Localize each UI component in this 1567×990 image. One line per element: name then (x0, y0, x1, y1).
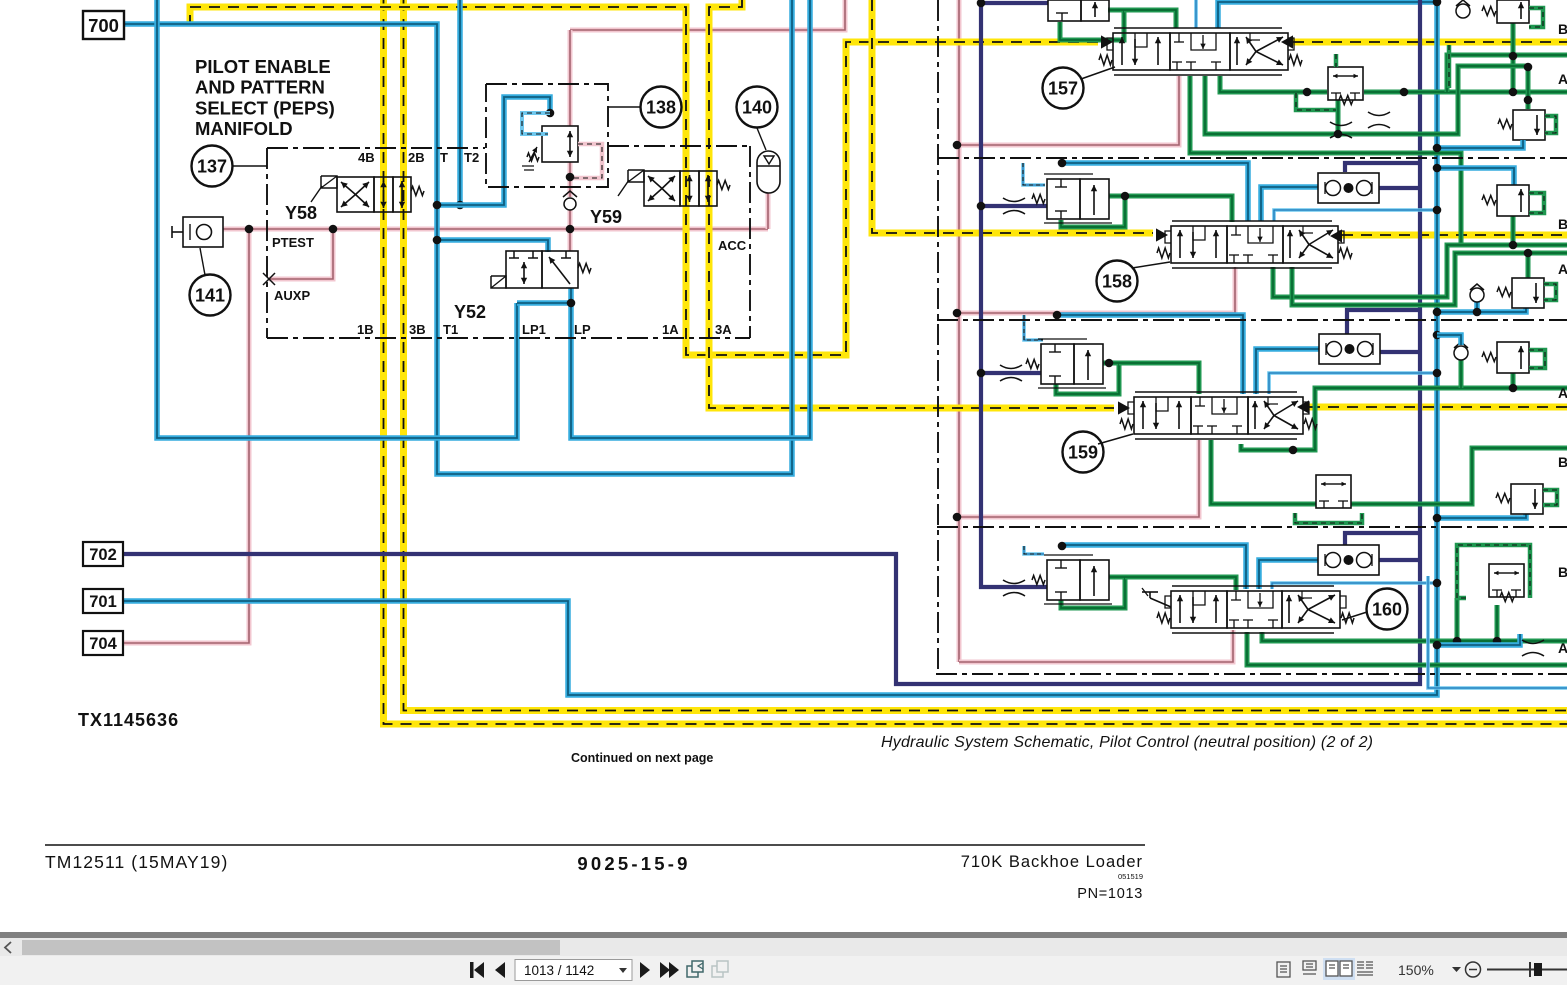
wire green 160 relief box link (1455, 598, 1460, 641)
relief valve 159 A (1511, 484, 1543, 514)
X mark AUXP (263, 273, 275, 285)
green dashed links 157 (1334, 54, 1339, 67)
wire cyan shuttle link 158 (1261, 187, 1318, 221)
svg-text:9025-15-9: 9025-15-9 (577, 853, 690, 874)
svg-text:T2: T2 (464, 150, 479, 165)
svg-text:3B: 3B (409, 322, 426, 337)
check valve circle 158 (1470, 288, 1484, 302)
wire rose right drain trunk (957, 0, 962, 662)
svg-text:138: 138 (646, 98, 676, 118)
wire navy branch 159 shuttle top (1347, 310, 1420, 334)
toolbar layout icon continuous (1303, 961, 1316, 974)
wire light blue 157 valve top stub (1194, 0, 1198, 28)
wire rose drain section 158 (959, 267, 1235, 313)
wire green 159 to valve top (1119, 363, 1199, 394)
border section 160 bottom (936, 673, 1567, 675)
wire green 159 reducing valve loop (1056, 363, 1119, 394)
label circle 158 (1097, 261, 1138, 302)
flow comp box 157 (1328, 67, 1363, 100)
svg-text:1A: 1A (662, 322, 679, 337)
wire yellow pilot 157 continues right (1293, 39, 1567, 46)
viewer toolbar background (0, 956, 1567, 985)
check valve 141 (183, 217, 223, 247)
wire navy pump feed trunk (981, 1, 1048, 5)
wire green 158 work line A (1292, 253, 1567, 305)
wire navy feed section 159 (981, 371, 1041, 375)
check valve circle 157 (1456, 4, 1470, 18)
svg-text:710K Backhoe Loader: 710K Backhoe Loader (961, 853, 1143, 871)
toolbar last page button (660, 962, 679, 978)
wire cyan 138 loop (437, 97, 550, 205)
svg-text:B: B (1558, 454, 1567, 470)
wire cyan shuttle feed 160 (1062, 545, 1246, 589)
wire green 158 A relief riser (1526, 253, 1531, 278)
junction dots green 160 (1493, 637, 1502, 646)
svg-text:AUXP: AUXP (274, 288, 310, 303)
svg-text:150%: 150% (1398, 962, 1434, 978)
wire navy branch 158 shuttle top (1345, 163, 1420, 172)
label circle 138 (641, 87, 682, 128)
viewer gray divider (0, 932, 1567, 938)
node 701 (83, 589, 123, 613)
flow comp box 160 (1489, 564, 1524, 597)
wire cyan shuttle feed 158 (1062, 163, 1248, 221)
svg-text:A: A (1558, 261, 1567, 277)
wire green 160 relief drop (1495, 605, 1500, 641)
solenoid valve Y59 (628, 170, 644, 182)
svg-text:701: 701 (89, 593, 117, 611)
relief valve 159 B (1497, 342, 1529, 373)
wire navy 702 line to valve block (124, 0, 1420, 684)
wire green 157 to valve top (1124, 10, 1176, 28)
svg-text:4B: 4B (358, 150, 375, 165)
wire PTEST rose main line (223, 227, 768, 232)
label circle 160 (1367, 589, 1408, 630)
wire cyan T1 left line (157, 0, 517, 438)
wire green 157 shuttle out (1364, 90, 1567, 95)
svg-text:A: A (1558, 640, 1567, 656)
svg-text:160: 160 (1372, 600, 1402, 620)
toolbar layout icon book (1357, 962, 1373, 975)
wire rose drain section 160 (959, 630, 1233, 662)
node 704 (83, 631, 123, 655)
wire cyan LP jog (517, 300, 571, 306)
junction dots rose right (953, 141, 962, 150)
wire rose accumulator drop (766, 193, 771, 229)
wire light blue 160 valve top (1272, 583, 1437, 589)
check valve circle 159 (1454, 346, 1468, 360)
wire navy branch 160 shuttle top (1345, 533, 1420, 545)
solenoid valve Y52 (506, 251, 542, 288)
wire light blue bottom exit (1428, 576, 1567, 688)
wire rose Y-138 drain upper (570, 0, 845, 30)
junction dots cyan left (433, 201, 442, 210)
wire green 158 reducing valve loop (1061, 196, 1125, 227)
label circle 141 (190, 275, 231, 316)
cyan 157 A return (1437, 140, 1523, 148)
toolbar layout icon single (1277, 962, 1290, 977)
junction dots navy (977, 0, 986, 7)
wire rose drain section 159 (959, 440, 1199, 517)
wire green 160 reducing valve loop (1061, 577, 1125, 608)
wire green 157 long drain (1190, 76, 1461, 245)
check valve under 138 (564, 198, 576, 210)
svg-text:B: B (1558, 564, 1567, 580)
junction dots green 157 (1303, 88, 1312, 97)
svg-text:Y59: Y59 (590, 207, 622, 227)
main valve 160 (1172, 585, 1334, 587)
label circle 159 (1063, 432, 1104, 473)
wire green 159 check drop (1459, 360, 1464, 388)
wire cyan A relief return 159 (1437, 512, 1526, 518)
reducing valve section 157 partial (1048, 0, 1081, 21)
viewer scrollbar thumb (22, 940, 560, 955)
svg-text:AND PATTERN: AND PATTERN (195, 77, 325, 98)
border 138 sub box (486, 84, 608, 187)
junction dots green 158 (1121, 192, 1130, 201)
wire cyan LP to top (571, 0, 810, 438)
toolbar layout icon facing selected (1323, 958, 1355, 980)
wire cyan A relief return 160 (1437, 634, 1520, 645)
wire yellow pilot to valve 157 (190, 7, 1098, 355)
label circle 140 (737, 87, 778, 128)
border section 157/158 (938, 157, 1567, 159)
wire green 157 reducing valve loop (1060, 10, 1124, 40)
svg-text:140: 140 (742, 98, 772, 118)
svg-text:SELECT (PEPS): SELECT (PEPS) (195, 97, 335, 118)
toolbar copy icon 2 (712, 961, 728, 977)
wire cyan B relief feed 158 (1437, 168, 1514, 185)
svg-text:MANIFOLD: MANIFOLD (195, 118, 293, 139)
svg-text:1013 / 1142: 1013 / 1142 (524, 963, 594, 978)
junction dots green 159 (1105, 359, 1114, 368)
wire yellow pilot to valve 159 (709, 0, 1114, 408)
wire green 157 shuttle feed (1220, 76, 1327, 92)
wire cyan LP stub from Y52 (568, 288, 574, 303)
flow comp box 159 (1316, 475, 1351, 508)
wire green 157 relief riser B (1511, 23, 1516, 92)
reducing valve section 160 (1047, 560, 1080, 600)
shuttle valve 160 (1318, 545, 1379, 575)
svg-text:Hydraulic System Schematic,: Hydraulic System Schematic, Pilot Contro… (881, 734, 1373, 751)
solenoid valve Y58 (321, 176, 337, 188)
wire rose to 704 label (124, 229, 249, 643)
svg-text:158: 158 (1102, 272, 1132, 292)
wire green 159 relief riser (1511, 373, 1516, 388)
relief valve 157 top (1497, 0, 1529, 23)
svg-text:702: 702 (89, 546, 117, 564)
svg-text:B: B (1558, 216, 1567, 232)
svg-text:1B: 1B (357, 322, 374, 337)
wire green 157 work line A (1205, 66, 1528, 134)
rose dashed pilot box 138 (572, 144, 602, 178)
border section 159/160 (937, 526, 1567, 528)
svg-text:PN=1013: PN=1013 (1077, 886, 1143, 902)
svg-text:LP: LP (574, 322, 591, 337)
viewer scrollbar left chevron (5, 942, 11, 953)
relief valve 157 A (1513, 110, 1545, 140)
wire cyan tank line from 700 (124, 0, 792, 474)
wire green 158 work line B (1273, 245, 1567, 297)
wire cyan 701 line trunk (124, 2, 1437, 695)
wire yellow pilot 158 continues right (1342, 232, 1567, 239)
main valve 159 (1135, 391, 1297, 393)
svg-text:Continued on next page: Continued on next page (571, 751, 713, 765)
wire cyan shuttle link 160 (1259, 560, 1318, 589)
svg-text:137: 137 (197, 157, 227, 177)
svg-text:A: A (1558, 385, 1567, 401)
toolbar next page button (640, 962, 650, 978)
wire rose Y-138 vertical (568, 30, 573, 126)
label circle 137 (192, 146, 233, 187)
wire yellow pilot to valve 158 (872, 0, 1153, 233)
light blue dashed box 138 (522, 113, 550, 134)
wire rose drain section 157 (959, 76, 1179, 145)
svg-text:ACC: ACC (718, 238, 747, 253)
svg-text:LP1: LP1 (522, 322, 546, 337)
svg-text:2B: 2B (408, 150, 425, 165)
wire cyan shuttle feed 159 (1057, 315, 1243, 394)
svg-text:PILOT ENABLE: PILOT ENABLE (195, 56, 331, 77)
shuttle valve 158 (1318, 173, 1379, 203)
junction dots PTEST (245, 225, 254, 234)
toolbar first page button (470, 962, 484, 978)
toolbar copy icon 1 (687, 961, 703, 977)
wire light blue 158 valve top (1274, 210, 1437, 221)
toolbar prev page button (495, 962, 505, 978)
wire yellow pilot 159 continues right (1309, 404, 1567, 411)
footer rule (45, 844, 1145, 846)
wire light blue 159 reducing loop (1024, 315, 1043, 340)
wire cyan shuttle link 159 (1256, 349, 1319, 394)
svg-text:B: B (1558, 21, 1567, 37)
wire light blue 159 valve top (1269, 373, 1437, 394)
wire green 158 to valve top (1125, 196, 1232, 222)
wire yellow 2B branch (404, 0, 1567, 711)
reducing valve 138 (542, 126, 578, 162)
wire navy branch 159 shuttle out (1378, 350, 1420, 354)
node 700 (83, 11, 124, 39)
svg-text:3A: 3A (715, 322, 732, 337)
main valve 158 (1172, 220, 1332, 222)
svg-text:051519: 051519 (1118, 872, 1143, 881)
wire cyan 159 check feed (1437, 335, 1461, 345)
svg-text:141: 141 (195, 286, 225, 306)
relief valve 158 B (1497, 185, 1529, 216)
accumulator 140 (757, 151, 780, 193)
svg-text:Y58: Y58 (285, 203, 317, 223)
wire yellow 4B branch (384, 0, 1567, 724)
wire rose AUXP stub (269, 229, 333, 279)
toolbar page input box (515, 960, 632, 981)
svg-text:PTEST: PTEST (272, 235, 314, 250)
shuttle valve 159 (1319, 334, 1380, 364)
wire green 159 work line lower (1211, 440, 1567, 504)
wire green 158 B relief riser (1511, 215, 1516, 245)
viewer scrollbar track (0, 938, 1567, 956)
svg-text:T: T (440, 150, 448, 165)
relief valve 158 A (1512, 278, 1544, 308)
wire green 157 riser to relief (1447, 55, 1567, 92)
wire light blue 158 reducing loop (1023, 163, 1045, 185)
wire green 157 flowbox drop (1336, 100, 1341, 134)
svg-text:T1: T1 (443, 322, 458, 337)
wire cyan Y52 feed (437, 240, 548, 252)
junction dots cyan right trunk (1433, 0, 1442, 6)
wire green 159 work line A upper (1241, 388, 1567, 450)
wire navy feed section 158 (981, 204, 1047, 208)
wire cyan T2 line (457, 0, 463, 205)
green dashed box 160 (1457, 545, 1530, 598)
wire rose Y52 feed stub (568, 229, 573, 251)
svg-text:TX1145636: TX1145636 (78, 710, 179, 730)
wire green 160 to valve top (1125, 577, 1236, 590)
svg-text:157: 157 (1048, 79, 1078, 99)
wire navy branch 158 shuttle out (1378, 186, 1420, 190)
node 702 (83, 542, 123, 566)
wire green 160 work line B (1262, 632, 1567, 641)
wire light blue 160 reducing loop (1024, 546, 1044, 554)
wire navy branch 160 shuttle out (1378, 558, 1420, 562)
svg-text:704: 704 (89, 635, 117, 653)
border PEPS manifold box (267, 147, 485, 149)
toolbar zoom slider (1487, 969, 1567, 971)
border valve block left edge (937, 0, 939, 674)
border section 158/159 (937, 319, 1567, 321)
lever handle 160 (1150, 598, 1171, 607)
wire cyan A relief return 158 (1437, 306, 1526, 312)
toolbar zoom out circle (1466, 962, 1481, 977)
reducing valve section 159 (1041, 344, 1074, 384)
wire cyan check stub 158 (1474, 302, 1480, 312)
label circle 157 (1043, 68, 1084, 109)
svg-text:Y52: Y52 (454, 302, 486, 322)
main valve 157 (1114, 27, 1282, 29)
svg-text:700: 700 (88, 15, 119, 36)
svg-text:A: A (1558, 71, 1567, 87)
reducing valve section 158 (1047, 179, 1080, 219)
wire green 160 work line A (1247, 632, 1567, 665)
svg-text:159: 159 (1068, 443, 1098, 463)
svg-text:TM12511 (15MAY19): TM12511 (15MAY19) (45, 852, 228, 872)
